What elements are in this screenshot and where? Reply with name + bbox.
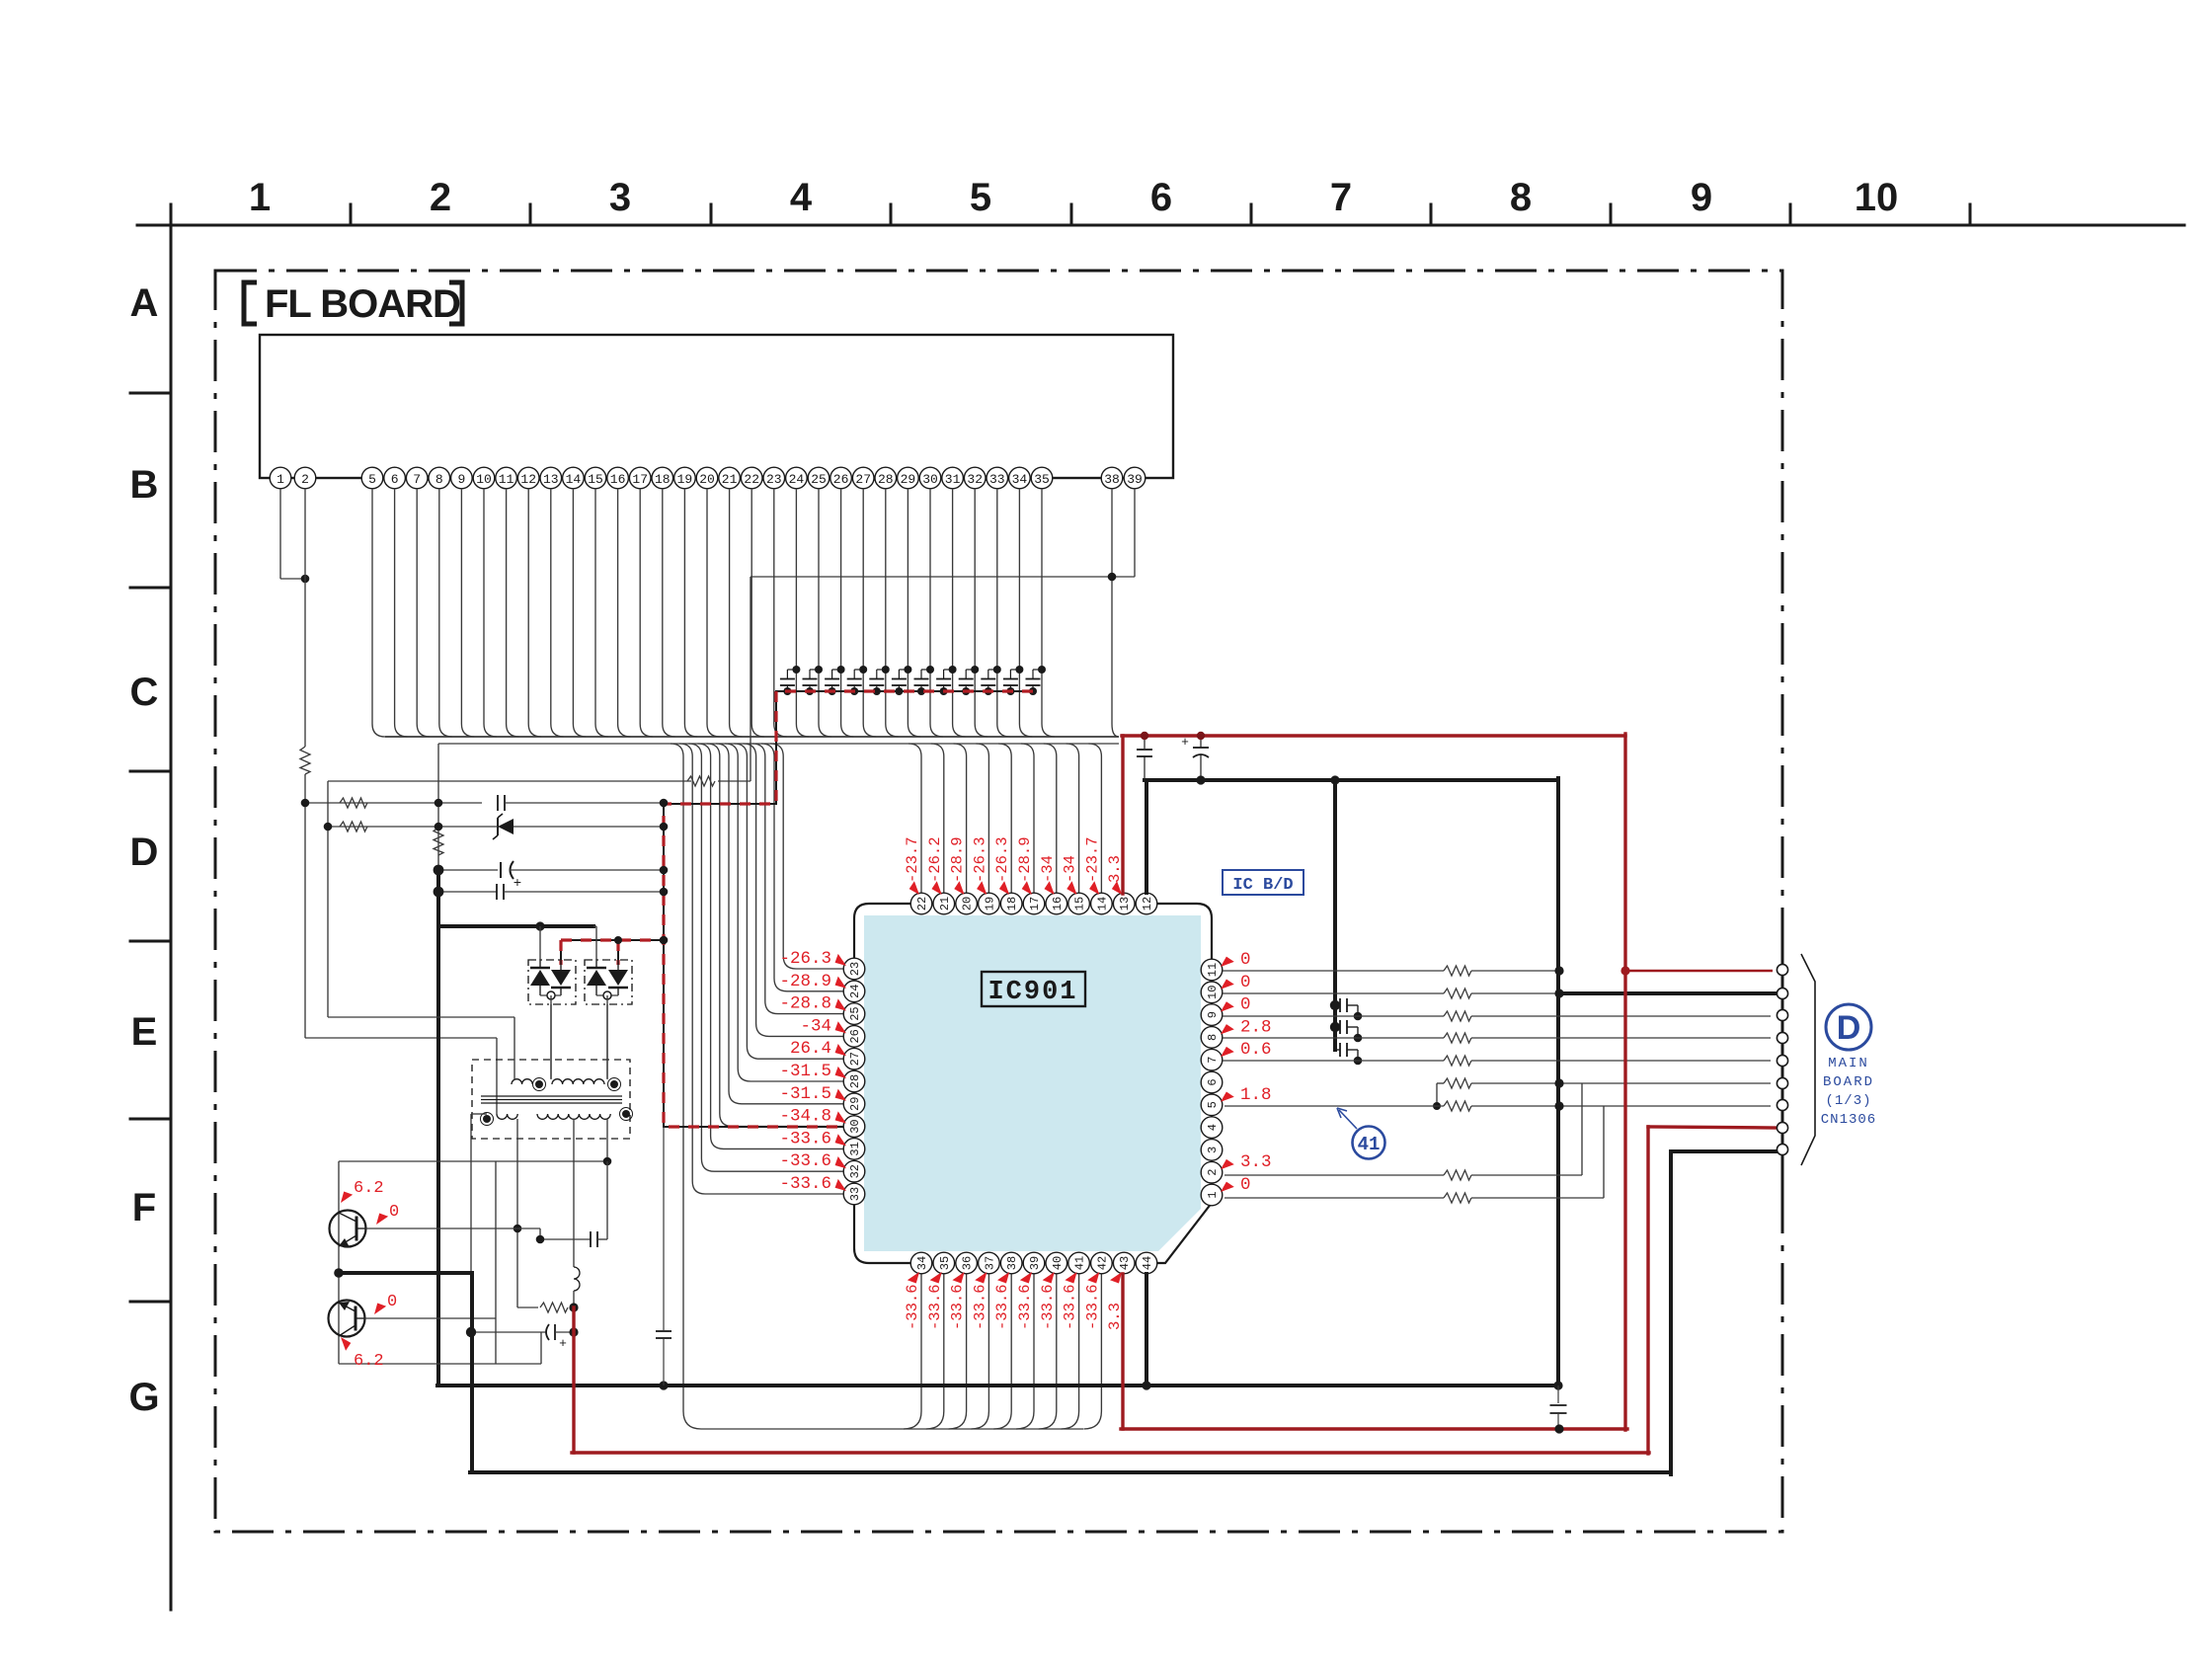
- svg-text:IC B/D: IC B/D: [1232, 876, 1293, 895]
- svg-text:-34.8: -34.8: [779, 1107, 831, 1127]
- svg-text:18: 18: [1005, 897, 1019, 911]
- svg-text:FL BOARD: FL BOARD: [265, 282, 460, 326]
- svg-text:-33.6: -33.6: [904, 1284, 921, 1330]
- svg-text:25: 25: [848, 1006, 862, 1020]
- svg-text:9: 9: [1206, 1011, 1220, 1018]
- svg-text:24: 24: [848, 985, 862, 998]
- svg-text:14: 14: [1095, 897, 1109, 911]
- svg-text:-26.3: -26.3: [971, 836, 988, 883]
- svg-text:F: F: [132, 1186, 156, 1229]
- svg-text:6: 6: [1150, 176, 1172, 219]
- svg-text:19: 19: [983, 897, 996, 911]
- svg-text:27: 27: [848, 1052, 862, 1066]
- svg-text:36: 36: [961, 1256, 975, 1270]
- svg-text:29: 29: [901, 472, 916, 487]
- svg-text:43: 43: [1118, 1256, 1132, 1270]
- svg-text:C: C: [130, 671, 159, 714]
- svg-text:-33.6: -33.6: [926, 1284, 944, 1330]
- svg-text:21: 21: [938, 897, 952, 911]
- svg-text:10: 10: [1206, 986, 1220, 999]
- svg-text:B: B: [130, 463, 159, 507]
- svg-text:16: 16: [1051, 897, 1065, 911]
- svg-text:D: D: [1837, 1009, 1861, 1047]
- svg-text:11: 11: [499, 472, 514, 487]
- svg-text:G: G: [128, 1376, 159, 1419]
- svg-text:7: 7: [1330, 176, 1352, 219]
- svg-text:12: 12: [520, 472, 536, 487]
- svg-text:-28.9: -28.9: [949, 836, 967, 883]
- svg-text:15: 15: [1073, 897, 1087, 911]
- svg-text:5: 5: [368, 472, 376, 487]
- svg-text:CN1306: CN1306: [1821, 1112, 1876, 1128]
- svg-text:26.4: 26.4: [790, 1039, 831, 1059]
- svg-text:5: 5: [970, 176, 991, 219]
- svg-text:39: 39: [1028, 1256, 1042, 1270]
- svg-text:-28.9: -28.9: [779, 972, 831, 991]
- svg-text:35: 35: [938, 1256, 952, 1270]
- svg-text:16: 16: [610, 472, 626, 487]
- svg-text:34: 34: [915, 1256, 929, 1270]
- svg-text:37: 37: [983, 1256, 996, 1270]
- svg-text:13: 13: [1118, 897, 1132, 911]
- svg-text:-26.2: -26.2: [926, 836, 944, 883]
- svg-text:BOARD: BOARD: [1823, 1074, 1874, 1090]
- svg-text:26: 26: [833, 472, 849, 487]
- svg-text:38: 38: [1005, 1256, 1019, 1270]
- svg-text:0: 0: [1240, 973, 1251, 992]
- svg-text:2: 2: [1206, 1169, 1220, 1176]
- svg-text:30: 30: [922, 472, 938, 487]
- svg-text:-34: -34: [800, 1016, 831, 1036]
- svg-text:34: 34: [1012, 472, 1028, 487]
- svg-text:-26.3: -26.3: [779, 949, 831, 969]
- svg-text:21: 21: [722, 472, 738, 487]
- svg-text:17: 17: [1028, 897, 1042, 911]
- svg-text:3.3: 3.3: [1240, 1152, 1272, 1172]
- svg-text:11: 11: [1206, 963, 1220, 977]
- svg-text:6.2: 6.2: [354, 1352, 384, 1371]
- svg-text:2: 2: [430, 176, 451, 219]
- svg-text:0.6: 0.6: [1240, 1040, 1272, 1060]
- svg-text:19: 19: [677, 472, 693, 487]
- svg-text:41: 41: [1073, 1256, 1087, 1270]
- svg-text:31: 31: [848, 1142, 862, 1155]
- svg-text:-33.6: -33.6: [949, 1284, 967, 1330]
- svg-text:IC901: IC901: [987, 978, 1077, 1007]
- svg-text:20: 20: [699, 472, 715, 487]
- svg-text:-33.6: -33.6: [779, 1174, 831, 1194]
- svg-text:+: +: [513, 876, 521, 892]
- svg-text:32: 32: [848, 1164, 862, 1178]
- svg-text:-23.7: -23.7: [1083, 836, 1101, 883]
- svg-text:12: 12: [1141, 897, 1154, 911]
- svg-text:D: D: [130, 831, 159, 874]
- svg-text:10: 10: [476, 472, 492, 487]
- svg-text:MAIN: MAIN: [1828, 1056, 1869, 1071]
- svg-text:30: 30: [848, 1119, 862, 1133]
- svg-text:28: 28: [848, 1074, 862, 1088]
- svg-text:0: 0: [1240, 995, 1251, 1015]
- svg-text:15: 15: [588, 472, 603, 487]
- svg-text:0: 0: [1240, 950, 1251, 970]
- svg-text:23: 23: [766, 472, 782, 487]
- svg-text:-34: -34: [1062, 855, 1079, 883]
- svg-text:0: 0: [387, 1293, 397, 1311]
- svg-text:29: 29: [848, 1097, 862, 1111]
- svg-text:6: 6: [1206, 1078, 1220, 1085]
- svg-text:2: 2: [301, 472, 309, 487]
- svg-text:14: 14: [566, 472, 582, 487]
- svg-text:18: 18: [655, 472, 671, 487]
- svg-text:23: 23: [848, 962, 862, 976]
- svg-text:35: 35: [1034, 472, 1050, 487]
- svg-text:-33.6: -33.6: [971, 1284, 988, 1330]
- svg-text:41: 41: [1358, 1134, 1381, 1155]
- svg-text:10: 10: [1855, 176, 1899, 219]
- svg-text:-31.5: -31.5: [779, 1062, 831, 1081]
- svg-text:9: 9: [457, 472, 465, 487]
- svg-text:33: 33: [848, 1187, 862, 1201]
- svg-text:25: 25: [811, 472, 827, 487]
- svg-text:-33.6: -33.6: [1039, 1284, 1057, 1330]
- svg-text:8: 8: [1510, 176, 1532, 219]
- svg-text:2.8: 2.8: [1240, 1017, 1272, 1037]
- svg-text:4: 4: [1206, 1124, 1220, 1131]
- svg-text:8: 8: [435, 472, 443, 487]
- svg-text:22: 22: [744, 472, 759, 487]
- svg-text:8: 8: [1206, 1034, 1220, 1041]
- svg-text:E: E: [131, 1010, 158, 1054]
- svg-text:-31.5: -31.5: [779, 1084, 831, 1104]
- svg-text:0: 0: [389, 1203, 399, 1222]
- svg-text:1: 1: [1206, 1191, 1220, 1198]
- svg-text:32: 32: [967, 472, 983, 487]
- svg-text:42: 42: [1095, 1256, 1109, 1270]
- svg-text:17: 17: [632, 472, 648, 487]
- svg-text:-33.6: -33.6: [1016, 1284, 1034, 1330]
- svg-text:1: 1: [249, 176, 271, 219]
- svg-text:26: 26: [848, 1029, 862, 1043]
- svg-text:7: 7: [1206, 1057, 1220, 1064]
- svg-text:-33.6: -33.6: [779, 1129, 831, 1148]
- svg-text:1.8: 1.8: [1240, 1085, 1272, 1105]
- svg-text:-33.6: -33.6: [993, 1284, 1011, 1330]
- svg-text:6.2: 6.2: [354, 1179, 384, 1198]
- svg-text:3: 3: [609, 176, 631, 219]
- svg-text:38: 38: [1104, 472, 1120, 487]
- svg-text:-34: -34: [1039, 855, 1057, 883]
- svg-text:20: 20: [961, 897, 975, 911]
- svg-text:13: 13: [543, 472, 559, 487]
- svg-text:5: 5: [1206, 1101, 1220, 1108]
- svg-text:31: 31: [945, 472, 961, 487]
- svg-text:7: 7: [413, 472, 421, 487]
- svg-text:-23.7: -23.7: [904, 836, 921, 883]
- svg-text:-28.9: -28.9: [1016, 836, 1034, 883]
- svg-text:-33.6: -33.6: [779, 1151, 831, 1171]
- svg-text:A: A: [130, 281, 159, 325]
- svg-text:-33.6: -33.6: [1083, 1284, 1101, 1330]
- svg-text:27: 27: [855, 472, 871, 487]
- svg-text:1: 1: [276, 472, 284, 487]
- svg-text:28: 28: [878, 472, 894, 487]
- svg-text:0: 0: [1240, 1175, 1251, 1195]
- svg-text:33: 33: [989, 472, 1005, 487]
- svg-text:(1/3): (1/3): [1825, 1093, 1871, 1109]
- svg-text:-26.3: -26.3: [993, 836, 1011, 883]
- svg-text:-28.8: -28.8: [779, 994, 831, 1014]
- svg-text:44: 44: [1141, 1256, 1154, 1270]
- svg-text:22: 22: [915, 897, 929, 911]
- svg-text:40: 40: [1051, 1256, 1065, 1270]
- svg-text:39: 39: [1127, 472, 1143, 487]
- svg-text:+: +: [559, 1336, 567, 1351]
- svg-text:9: 9: [1691, 176, 1712, 219]
- svg-text:-33.6: -33.6: [1062, 1284, 1079, 1330]
- svg-text:6: 6: [391, 472, 399, 487]
- svg-text:24: 24: [789, 472, 805, 487]
- svg-text:3: 3: [1206, 1147, 1220, 1153]
- svg-text:4: 4: [790, 176, 813, 219]
